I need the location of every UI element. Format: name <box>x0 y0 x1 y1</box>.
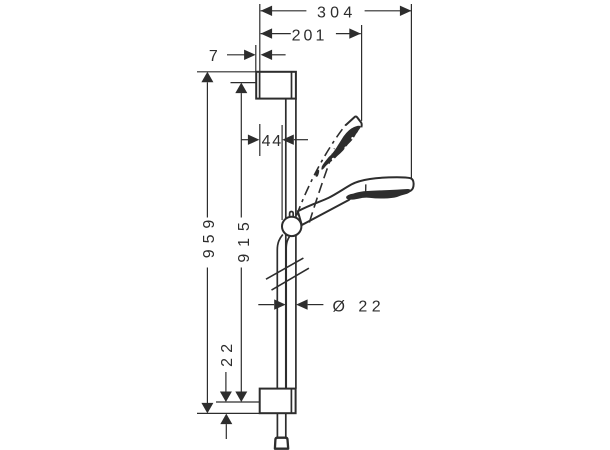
slider knob nub <box>290 212 294 218</box>
hose below bracket left <box>276 413 278 437</box>
dimension 7 <box>227 50 286 60</box>
extension line 915 bottom <box>216 401 260 403</box>
ghost head tip outline <box>346 117 362 128</box>
svg-text:7: 7 <box>209 48 218 65</box>
dimension 959 <box>201 72 213 414</box>
dimension 44 <box>242 135 309 145</box>
ghost shading fragment <box>315 170 319 177</box>
ghost shading notch 2 <box>332 158 335 161</box>
slide bar right edge <box>295 99 297 389</box>
svg-text:Ø 22: Ø 22 <box>333 298 386 315</box>
extension line 201 right <box>361 25 363 121</box>
bottom bracket inner line <box>290 389 292 414</box>
svg-text:44: 44 <box>262 133 283 150</box>
svg-text:959: 959 <box>201 214 218 258</box>
extension line 959 bottom <box>197 412 260 414</box>
break mark line 1 <box>266 258 303 279</box>
extension line 44 left <box>259 124 261 156</box>
break mark line 2 <box>272 268 309 290</box>
hose upper arc left <box>277 235 283 389</box>
bottom wall bracket <box>260 389 296 414</box>
diameter dim Ø22 <box>258 299 323 309</box>
hose below bracket right <box>285 413 287 437</box>
top bracket inner left line <box>259 72 261 99</box>
ghost handle dashed edge B <box>309 149 334 223</box>
extension line 44 right (to slider) <box>281 125 283 220</box>
dimension 22 left bottom <box>220 372 232 439</box>
slider knob <box>282 217 301 236</box>
wall back line for dim 7 <box>255 45 257 72</box>
extension line 915 top <box>231 82 257 84</box>
ghost handle dashed edge A <box>297 125 346 216</box>
wall extension line top <box>259 4 261 72</box>
extension line 304 right <box>410 4 412 179</box>
extension line 959 top <box>197 71 256 73</box>
dimension 201 <box>261 28 361 38</box>
svg-text:201: 201 <box>292 27 328 44</box>
ghost spray face shading <box>321 126 360 170</box>
hose cone nut <box>275 438 288 449</box>
hand shower body (handle + head) <box>298 177 414 225</box>
svg-text:915: 915 <box>236 215 253 262</box>
svg-text:22: 22 <box>219 339 236 367</box>
dimension 915 <box>235 83 247 402</box>
slide bar left edge <box>285 99 287 389</box>
head seam tick <box>365 184 367 194</box>
ghost shading notch 1 <box>344 146 348 150</box>
ghost shading notch 3 <box>351 137 354 140</box>
top bracket inner right line <box>291 72 293 99</box>
hose upper arc right <box>286 236 290 389</box>
top wall bracket <box>256 72 296 99</box>
spray face shading <box>346 189 410 200</box>
drawing object lines <box>256 72 413 449</box>
svg-text:304: 304 <box>317 4 357 21</box>
dimension 304 <box>261 6 412 16</box>
